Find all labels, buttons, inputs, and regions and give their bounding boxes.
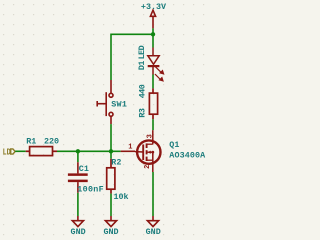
switch SW1 (97, 80, 113, 124)
transistor Q1 AO3400A (121, 130, 161, 172)
svg-text:R1: R1 (26, 137, 36, 147)
wire: +3.3V down to junction (152, 28, 154, 47)
svg-text:GND: GND (146, 227, 161, 237)
svg-text:Q1: Q1 (169, 140, 179, 150)
wire: LD to R1 (15, 150, 26, 152)
ground (Q1) (147, 216, 158, 227)
source connection (147, 159, 153, 161)
bulk connection with arrow (147, 151, 153, 153)
junction gate node (109, 149, 113, 153)
svg-text:440: 440 (138, 84, 148, 98)
gate pin (121, 150, 135, 152)
svg-text:100nF: 100nF (77, 185, 104, 195)
wire: top horizontal (111, 33, 153, 35)
wire: LED to R3 (152, 75, 154, 89)
resistor R1 (26, 147, 57, 156)
power symbol +3.3V (150, 10, 155, 28)
svg-text:SW1: SW1 (111, 99, 127, 109)
wire: R1 to gate node (57, 150, 121, 152)
junction C1 (76, 149, 80, 153)
channel segments (146, 143, 148, 148)
svg-text:GND: GND (103, 227, 118, 237)
svg-text:R2: R2 (111, 158, 121, 168)
svg-text:+3.3V: +3.3V (141, 2, 167, 12)
wire: SW1 to gate node (110, 124, 112, 151)
svg-text:LED: LED (137, 45, 147, 59)
hierarchical label LD (11, 149, 16, 154)
capacitor C1 (77, 151, 79, 162)
LED D1 (148, 48, 160, 75)
resistor R3 (149, 88, 157, 119)
svg-text:GND: GND (71, 227, 86, 237)
svg-text:AO3400A: AO3400A (169, 151, 206, 161)
svg-text:R3: R3 (138, 108, 148, 118)
LED emission arrows (155, 66, 164, 81)
ground (R2) (105, 216, 116, 227)
wire: C1 to GND (77, 193, 79, 216)
resistor R2 (110, 151, 112, 159)
svg-text:10k: 10k (114, 192, 129, 202)
svg-text:2: 2 (144, 165, 152, 169)
wire: left rail from top wire to SW1 (110, 34, 112, 81)
ground (C1) (72, 216, 83, 227)
svg-text:220: 220 (44, 137, 59, 147)
wire: Q1 source to GND (152, 172, 154, 216)
svg-text:1: 1 (128, 144, 132, 152)
svg-text:LD: LD (3, 146, 11, 157)
svg-text:3: 3 (146, 134, 154, 138)
drain connection (147, 143, 153, 145)
junction at 3.3V rail (151, 32, 155, 36)
wire: R3 to Q1 drain (152, 119, 154, 130)
gate bar (142, 145, 144, 161)
wire: R2 to GND (110, 194, 112, 216)
svg-text:D1: D1 (137, 61, 147, 71)
svg-text:C1: C1 (79, 164, 89, 174)
